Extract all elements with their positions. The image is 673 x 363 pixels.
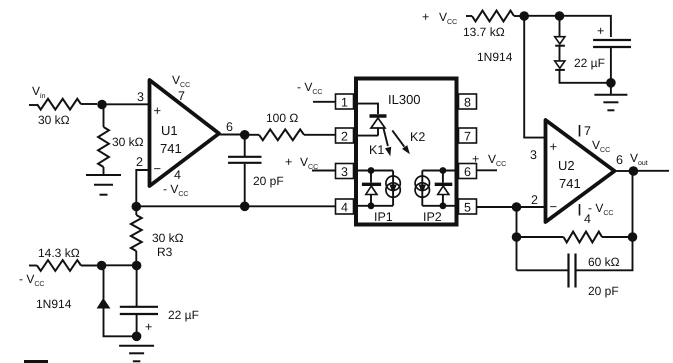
svg-text:30 kΩ: 30 kΩ [38, 113, 70, 127]
node feedback left junction [512, 232, 522, 242]
svg-text:7: 7 [584, 124, 591, 138]
svg-text:+: + [472, 152, 479, 166]
svg-text:30 kΩ: 30 kΩ [152, 231, 184, 245]
wire IL300 pin 5 to U2 pin 2 [477, 206, 546, 208]
svg-text:100 Ω: 100 Ω [266, 111, 298, 125]
capacitor 22 uF electrolytic (right) [593, 40, 631, 80]
label 1N914 (top right pair) [477, 50, 513, 64]
label + polarity (left 22uF) [145, 320, 152, 334]
U2 pin 4 tick [579, 204, 581, 216]
label -Vcc at IL300 pin 1 [297, 80, 322, 96]
wire R3 top lead [135, 207, 137, 216]
wire 20pF right plate to output [576, 237, 633, 270]
node feedback right junction [628, 232, 638, 242]
U1 pin 4 -Vcc label [163, 168, 188, 198]
ground left bottom [119, 346, 154, 362]
svg-text:−: − [550, 199, 558, 214]
label 13.7 kOhm [463, 25, 505, 39]
wire Vin lead [29, 104, 37, 106]
capacitor 20 pF (U1) [228, 157, 262, 206]
svg-text:R3: R3 [157, 245, 173, 259]
diode 1N914 bottom (second) [555, 46, 565, 70]
U2 noninverting + sign [550, 139, 558, 154]
wire U2 output [615, 170, 630, 172]
label 22 uF (left) [168, 308, 199, 322]
U1 pin 2 number label [136, 155, 143, 169]
node Vin input terminal label [32, 84, 46, 100]
label IL300 [388, 92, 421, 107]
svg-text:4: 4 [341, 201, 348, 215]
label + polarity (right 22uF) [597, 24, 604, 38]
svg-text:U1: U1 [161, 123, 178, 138]
svg-text:+: + [154, 103, 162, 118]
wire 14.3k to diode node [81, 265, 98, 267]
svg-text:6: 6 [226, 120, 233, 134]
U1 pin 7 Vcc label [172, 73, 190, 103]
svg-text:IP2: IP2 [423, 210, 442, 224]
wire shunt resistor to ground [103, 167, 105, 175]
U2 pin 7 Vcc label [584, 124, 610, 154]
label 14.3 kOhm [38, 246, 80, 260]
U1 pin 3 number label [137, 90, 144, 104]
label 22 uF (right) [574, 56, 605, 70]
photodiode IP1 diode [362, 171, 381, 206]
U2 pin 4 -Vcc label [584, 201, 613, 226]
wire node B to node C [524, 15, 559, 17]
op-amp U1 triangle [150, 80, 220, 186]
node R3 bottom / 22uF junction [132, 261, 142, 271]
svg-text:2: 2 [341, 130, 348, 144]
resistor 14.3 kOhm [37, 260, 81, 271]
wire diode branch lower [104, 308, 134, 336]
svg-text:4: 4 [174, 168, 181, 182]
resistor R3 30 kOhm vertical [131, 215, 142, 251]
optocoupler IL300 package outline [356, 79, 457, 225]
svg-text:1N914: 1N914 [477, 50, 513, 64]
label Vout [630, 151, 648, 167]
svg-text:30 kΩ: 30 kΩ [112, 135, 144, 149]
wire Vout down to feedback [632, 171, 634, 234]
svg-text:20 pF: 20 pF [588, 284, 619, 298]
wire -Vcc lead [29, 265, 37, 267]
label 741 (U2) [559, 176, 581, 191]
svg-text:IP1: IP1 [374, 210, 393, 224]
label +Vcc at IL300 pin 3 [285, 155, 318, 171]
svg-text:+: + [550, 139, 558, 154]
label K1 [369, 143, 384, 157]
svg-text:7: 7 [178, 89, 185, 103]
diode 1N914 (left, conducts up) [98, 299, 110, 308]
arrow K1 light path [384, 129, 392, 157]
wire R3 bottom lead [135, 251, 137, 262]
resistor 60 kOhm feedback [564, 232, 603, 243]
svg-text:K2: K2 [410, 130, 425, 144]
label +Vcc at IL300 pin 6 [472, 152, 506, 168]
svg-text:+: + [145, 320, 152, 334]
wire output to 100 Ohm [245, 134, 259, 136]
wire to 60k [517, 236, 564, 238]
resistor 30 kOhm input series [37, 99, 81, 110]
U1 pin 6 number label [226, 120, 233, 134]
IL300 pin 6 box [459, 164, 477, 180]
wire +Vcc stub to pin 3 [312, 170, 336, 172]
label 20 pF (U2) [588, 284, 619, 298]
wire 13.7k to node B [514, 15, 521, 17]
U1 noninverting + sign [154, 103, 162, 118]
wire node B down to U2 pin 3 [524, 16, 545, 138]
svg-text:8: 8 [464, 96, 471, 110]
node U2 pin 2 junction [512, 202, 522, 212]
cropped logo mark [24, 360, 48, 363]
node 22uF ground junction [606, 78, 616, 88]
node IP1 diode bottom tap [368, 202, 375, 209]
ground top right [594, 95, 627, 111]
U2 pin 6 number label [616, 153, 623, 167]
current source IP1 (photocurrent) [386, 171, 400, 206]
label 30 kOhm input [38, 113, 70, 127]
svg-text:1N914: 1N914 [36, 297, 72, 311]
node IP2 diode bottom tap [440, 202, 447, 209]
svg-text:+: + [285, 155, 292, 169]
node ground junction (left) [132, 332, 142, 342]
wire feedback left down [516, 237, 518, 270]
U2 pin 7 tick [579, 125, 581, 137]
wire 100 Ohm to IL300 pin 2 [304, 134, 336, 136]
node IP1 diode top tap [368, 167, 375, 174]
svg-text:22 µF: 22 µF [168, 308, 199, 322]
svg-text:3: 3 [530, 148, 537, 162]
wire to 20pF left plate [517, 269, 569, 271]
node Vout junction [629, 166, 639, 176]
wire bottom rail to IL300 pin 4 [136, 205, 336, 207]
op-amp U2 triangle [546, 120, 615, 222]
svg-text:1: 1 [341, 96, 348, 110]
svg-text:2: 2 [531, 193, 538, 207]
wire IP1 top [358, 170, 393, 172]
resistor 100 Ohm [259, 129, 304, 140]
node U1 output junction [240, 130, 250, 140]
node B junction (U2 pin3 node) [519, 11, 529, 21]
wire Vout to right edge [633, 170, 669, 172]
wire IP2 top [422, 170, 454, 172]
U2 inverting - sign [550, 199, 558, 214]
wire diode node to R3 node [102, 264, 137, 266]
svg-text:K1: K1 [369, 143, 384, 157]
node 20pF bottom junction [240, 202, 250, 212]
IL300 pin 4 box [336, 199, 354, 215]
capacitor 20 pF (U2 feedback) [569, 254, 576, 288]
wire pin1 to LED [358, 104, 378, 114]
svg-text:2: 2 [136, 155, 143, 169]
node C junction (diode top) [555, 11, 565, 21]
label 30 kOhm R3 [152, 231, 184, 245]
wire output node to 20pF top plate [244, 135, 246, 156]
svg-text:22 µF: 22 µF [574, 56, 605, 70]
IL300 pin 1 box [336, 94, 354, 110]
svg-text:+: + [422, 10, 429, 24]
ground input divider [86, 175, 121, 195]
label 1N914 (left) [36, 297, 72, 311]
label 20 pF (U1) [253, 174, 284, 188]
wire node C to cap corner [560, 16, 611, 37]
label R3 [157, 245, 173, 259]
wire diode branch upper [103, 266, 105, 300]
svg-text:20 pF: 20 pF [253, 174, 284, 188]
svg-text:6: 6 [616, 153, 623, 167]
node U1 pin2 / R3 junction [132, 202, 142, 212]
node IP2 diode top tap [440, 167, 447, 174]
svg-text:3: 3 [341, 165, 348, 179]
svg-text:4: 4 [584, 212, 591, 226]
wire -Vcc stub to pin 1 [313, 101, 336, 103]
wire cap to ground [610, 83, 612, 94]
label -Vcc terminal (left) [19, 272, 44, 288]
capacitor 22 uF electrolytic (left) [120, 266, 158, 334]
wire IP2 bottom [422, 205, 454, 207]
svg-text:−: − [154, 161, 162, 176]
node A junction (U1 pin3 node) [97, 100, 107, 110]
wire node A down [103, 105, 105, 128]
wire resistor to node A [81, 103, 97, 105]
svg-text:741: 741 [559, 176, 581, 191]
label 100 Ohm [266, 111, 298, 125]
U2 pin 3 number label [530, 148, 537, 162]
wire diode pair return [560, 70, 608, 83]
label IP1 [374, 210, 393, 224]
wire LED to pin 2 [358, 135, 378, 137]
svg-text:U2: U2 [558, 158, 575, 173]
svg-text:13.7 kΩ: 13.7 kΩ [463, 25, 505, 39]
IL300 pin 2 box [336, 128, 354, 144]
resistor 13.7 kOhm [472, 11, 514, 22]
label U1 [161, 123, 178, 138]
wire 60k to output node [602, 236, 633, 238]
diode 1N914 top (first) [555, 16, 565, 46]
svg-text:14.3 kΩ: 14.3 kΩ [38, 246, 80, 260]
label U2 [558, 158, 575, 173]
svg-text:7: 7 [464, 130, 471, 144]
wire U1 pin 2 stub [136, 170, 149, 203]
svg-text:5: 5 [464, 201, 471, 215]
U2 pin 2 number label [531, 193, 538, 207]
wire U1 output [219, 134, 241, 136]
label +Vcc top right [422, 10, 457, 26]
label 30 kOhm shunt [112, 135, 144, 149]
svg-text:60 kΩ: 60 kΩ [588, 255, 620, 269]
label 60 kOhm [588, 255, 620, 269]
svg-text:741: 741 [160, 141, 182, 156]
wire pin2 node down [516, 207, 518, 234]
photodiode IP2 diode [435, 171, 453, 206]
wire +Vcc stub to pin 6 [477, 169, 498, 171]
arrow K2 light path [392, 130, 410, 154]
wire +Vcc lead [466, 15, 472, 17]
svg-text:+: + [597, 24, 604, 38]
label 741 (U1) [160, 141, 182, 156]
LED emitter (IL300 input diode) [370, 116, 387, 136]
svg-text:IL300: IL300 [388, 92, 421, 107]
wire IP1 bottom [358, 205, 393, 207]
label IP2 [423, 210, 442, 224]
current source IP2 (photocurrent) [415, 171, 429, 206]
wire node A to U1 pin 3 [102, 103, 149, 105]
IL300 pin 8 box [459, 94, 477, 110]
U1 inverting - sign [154, 161, 162, 176]
node diode/-Vcc junction [97, 261, 107, 271]
svg-text:6: 6 [464, 165, 471, 179]
IL300 pin 3 box [336, 164, 354, 180]
label K2 [410, 130, 425, 144]
resistor 30 kOhm shunt vertical [98, 127, 109, 167]
svg-text:3: 3 [137, 90, 144, 104]
IL300 pin 5 box [459, 199, 477, 215]
IL300 pin 7 box [459, 128, 477, 144]
